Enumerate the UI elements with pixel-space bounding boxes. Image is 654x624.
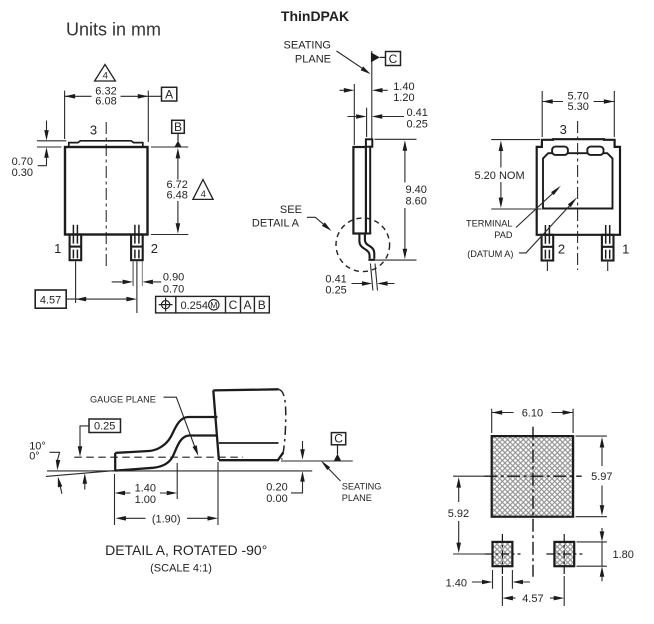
dim 0.20/0.00 arrows <box>302 441 304 450</box>
dim 0.41/0.25 upper ext line <box>366 108 368 137</box>
dim 0.41/0.25 lower stems <box>352 283 395 285</box>
dim 1.80 arrows <box>601 528 603 581</box>
position symbol <box>159 298 173 312</box>
gauge plane dashed line <box>74 456 243 458</box>
svg-text:A: A <box>165 88 173 102</box>
svg-text:Units in mm: Units in mm <box>66 20 161 40</box>
dim 1.40 ext lines <box>493 570 513 589</box>
dim (1.90) ext line right <box>217 462 219 525</box>
side lead S-bend <box>359 234 375 260</box>
svg-text:3: 3 <box>560 122 567 137</box>
tab side <box>366 139 372 146</box>
svg-text:0.254: 0.254 <box>181 300 209 312</box>
dim 5.20 NOM ext lines <box>491 140 541 209</box>
dim 1.40/1.20 stems <box>340 89 388 91</box>
small pad right hatched <box>554 542 574 566</box>
0.25 leader <box>80 426 89 447</box>
lead 1 front <box>70 235 82 261</box>
svg-text:0.00: 0.00 <box>266 493 287 505</box>
inner lead line in body <box>219 442 279 444</box>
small pad right centerlines <box>546 534 582 574</box>
center line front <box>105 122 107 268</box>
sloped 10deg line <box>46 471 115 477</box>
svg-text:8.60: 8.60 <box>406 196 427 208</box>
dim 1.40/1.20 ext line <box>353 84 355 145</box>
feature control frame <box>156 296 270 313</box>
center line back view <box>577 121 579 270</box>
svg-text:C: C <box>334 432 343 446</box>
seating plane line (vertical) <box>371 51 373 139</box>
datum B triangle <box>177 133 179 141</box>
back lead center extensions <box>547 262 607 271</box>
datum B box <box>172 120 185 133</box>
dim 6.72/6.48 stems <box>177 158 179 223</box>
datum a leader <box>519 202 573 253</box>
svg-text:1.40: 1.40 <box>446 577 467 589</box>
dim 6.10 line <box>492 412 573 414</box>
svg-text:6.10: 6.10 <box>522 408 543 420</box>
svg-text:0.30: 0.30 <box>12 167 33 179</box>
back lead 2 (left) <box>542 225 554 261</box>
slot right <box>587 147 603 155</box>
svg-text:SEATING: SEATING <box>284 39 331 51</box>
svg-text:2: 2 <box>558 241 565 256</box>
dim 1.40 arrows <box>472 581 530 583</box>
dim 1.40/1.00 ext lines <box>115 463 178 525</box>
svg-text:0.20: 0.20 <box>266 482 287 494</box>
dim 0.41/0.25 lower ext lines <box>370 264 377 291</box>
seating plane long line <box>47 470 312 472</box>
back view body outline <box>537 139 620 235</box>
svg-text:0.25: 0.25 <box>94 421 115 433</box>
dim 6.10 ext lines <box>492 409 573 433</box>
svg-text:1.00: 1.00 <box>135 494 156 506</box>
svg-text:0°: 0° <box>29 450 40 462</box>
slot left <box>552 147 568 155</box>
lead extension lines below <box>76 262 137 314</box>
svg-text:4.57: 4.57 <box>522 593 543 605</box>
dim 0.70/0.30 arrows stems <box>38 121 47 166</box>
side body <box>353 147 366 234</box>
lead2 aux extension lines <box>132 262 134 287</box>
svg-text:DETAIL A: DETAIL A <box>252 218 300 230</box>
land pattern centerlines <box>484 475 582 477</box>
seating plane leader <box>337 51 367 71</box>
svg-text:SEE: SEE <box>280 204 302 216</box>
dim 1.80 ext lines <box>577 542 607 566</box>
svg-text:M: M <box>210 300 217 310</box>
lead edge inside body <box>353 147 371 234</box>
svg-text:PAD: PAD <box>494 230 513 240</box>
svg-text:ThinDPAK: ThinDPAK <box>281 8 349 24</box>
svg-text:1.40: 1.40 <box>135 483 156 495</box>
svg-text:(DATUM A): (DATUM A) <box>467 249 513 259</box>
svg-text:6.48: 6.48 <box>166 190 187 202</box>
tab top edge front <box>69 141 143 147</box>
svg-text:0.90: 0.90 <box>163 271 184 283</box>
main pad hatched <box>492 436 573 517</box>
dim 0.90/0.70 stems <box>112 281 162 283</box>
svg-text:A: A <box>243 298 251 312</box>
small pad left centerlines <box>485 534 521 574</box>
svg-text:4.57: 4.57 <box>40 294 61 306</box>
svg-text:SEATING: SEATING <box>342 482 382 492</box>
box dim 0.25 <box>89 419 121 433</box>
terminal pad leader <box>516 190 557 228</box>
dim 9.40/8.60 stem <box>404 150 406 250</box>
svg-text:4: 4 <box>201 189 206 200</box>
dim 6.32/6.08 extension lines <box>65 91 149 142</box>
svg-text:0.25: 0.25 <box>407 118 428 130</box>
svg-text:1.20: 1.20 <box>393 92 414 104</box>
svg-text:5.92: 5.92 <box>448 508 469 520</box>
dim 1.40/1.00 line <box>125 492 167 494</box>
terminal pad outline <box>543 153 613 208</box>
svg-text:9.40: 9.40 <box>406 184 427 196</box>
back lead 1 (right) <box>602 225 614 261</box>
dim 5.20 NOM stem <box>500 151 502 199</box>
angle tick and arrows <box>50 452 60 460</box>
datum C flag side <box>371 52 380 62</box>
svg-text:0.70: 0.70 <box>163 284 184 296</box>
dim 4.57 ext lines <box>502 576 564 606</box>
seating plane leader detail <box>327 467 341 482</box>
body detail A <box>213 389 283 460</box>
svg-text:2: 2 <box>151 241 158 256</box>
svg-text:3: 3 <box>90 123 97 138</box>
dim 9.40/8.60 ext lines <box>375 139 417 260</box>
svg-text:0.25: 0.25 <box>325 285 346 297</box>
package body front <box>65 147 148 235</box>
see detail a leader <box>307 217 328 227</box>
dim 6.32/6.08 line <box>65 95 162 97</box>
detail circle <box>336 218 390 272</box>
dim 5.92 ext lines <box>453 476 486 554</box>
svg-text:4: 4 <box>103 70 108 81</box>
datum C flag detail <box>331 433 345 445</box>
body break arc dash-dot <box>279 389 286 459</box>
dim 5.92 line <box>458 487 460 545</box>
dim 4.57 box <box>35 290 66 308</box>
svg-text:6.08: 6.08 <box>95 95 116 107</box>
svg-text:1.80: 1.80 <box>613 549 634 561</box>
svg-text:(SCALE 4:1): (SCALE 4:1) <box>150 562 212 574</box>
svg-text:(1.90): (1.90) <box>152 513 181 525</box>
svg-text:C: C <box>389 52 398 66</box>
svg-text:GAUGE PLANE: GAUGE PLANE <box>90 395 156 405</box>
svg-text:5.30: 5.30 <box>567 101 588 113</box>
dim 5.97 ext lines <box>576 436 607 517</box>
svg-text:PLANE: PLANE <box>342 493 372 503</box>
svg-text:TERMINAL: TERMINAL <box>466 218 512 228</box>
datum A box <box>162 87 177 101</box>
svg-text:1: 1 <box>622 241 629 256</box>
gauge plane leader <box>164 397 197 451</box>
body bottom ext line (0.00 ref) <box>281 460 353 462</box>
dim 5.97 line <box>601 447 603 507</box>
small pad left hatched <box>493 542 513 566</box>
svg-text:B: B <box>174 120 182 134</box>
svg-text:1: 1 <box>54 241 61 256</box>
dim (1.90) line <box>125 517 208 519</box>
dim 5.70/5.30 ext lines <box>542 91 614 137</box>
dim 6.72/6.48 extension lines <box>151 147 188 235</box>
svg-text:DETAIL A, ROTATED -90°: DETAIL A, ROTATED -90° <box>105 542 267 558</box>
lead 2 front <box>131 235 143 261</box>
dim 4.57 line <box>513 597 555 599</box>
note triangle 4 (top) <box>95 65 116 82</box>
dim 0.41/0.25 upper stems <box>348 116 405 118</box>
dim 5.70/5.30 line <box>542 101 614 103</box>
svg-text:5.97: 5.97 <box>591 471 612 483</box>
dim 0.70/0.30 extension lines <box>37 141 66 147</box>
dim 4.57 line <box>66 298 126 300</box>
svg-text:B: B <box>258 298 266 312</box>
note triangle 4 (right) <box>193 180 213 200</box>
svg-text:5.20 NOM: 5.20 NOM <box>475 170 525 182</box>
lead profile detail A <box>115 417 217 471</box>
arrowheads front <box>65 94 76 99</box>
svg-text:PLANE: PLANE <box>295 54 331 66</box>
svg-text:C: C <box>229 298 238 312</box>
